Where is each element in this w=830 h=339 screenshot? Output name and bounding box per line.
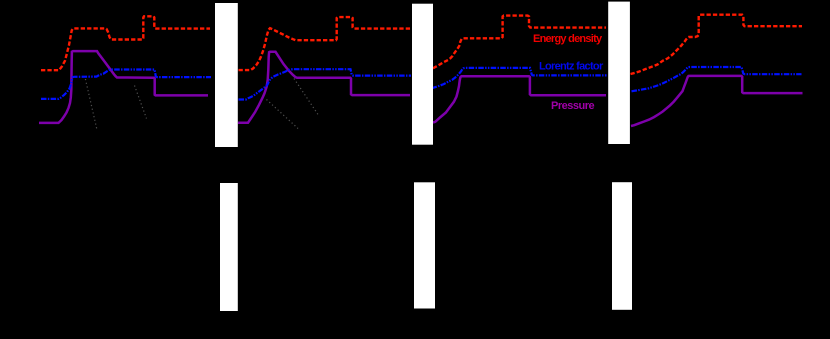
svg-text:Pressure: Pressure [551,100,594,112]
svg-text:Energy density: Energy density [533,33,603,45]
svg-text:Lorentz factor: Lorentz factor [539,60,604,72]
